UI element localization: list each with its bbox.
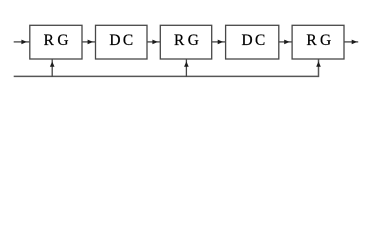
svg-text:DC: DC — [242, 32, 268, 49]
label RG1 — [44, 32, 72, 49]
wire RG1 to DC1 arrow — [82, 40, 95, 45]
wire clock riser to RG2 arrow — [184, 60, 189, 77]
svg-text:RG: RG — [44, 32, 72, 49]
label RG2 — [174, 32, 202, 49]
block DC1 — [96, 25, 148, 59]
block RG1 — [30, 25, 82, 59]
svg-text:RG: RG — [174, 32, 202, 49]
label RG3 — [306, 32, 334, 49]
wire clock riser to RG3 arrow — [316, 60, 321, 78]
block RG2 — [160, 25, 211, 59]
wire RG2 to DC2 arrow — [212, 40, 226, 45]
block DC2 — [226, 25, 279, 59]
wire output arrow — [344, 40, 358, 45]
wire DC2 to RG3 arrow — [279, 40, 292, 45]
block RG3 — [292, 25, 344, 59]
label DC2 — [242, 32, 268, 49]
wire DC1 to RG2 arrow — [147, 40, 160, 45]
svg-text:DC: DC — [109, 32, 135, 49]
wire clock bus horizontal — [14, 75, 319, 77]
label DC1 — [109, 32, 135, 49]
wire input arrow — [14, 40, 30, 45]
wire clock riser to RG1 arrow — [50, 60, 55, 77]
svg-text:RG: RG — [306, 32, 334, 49]
